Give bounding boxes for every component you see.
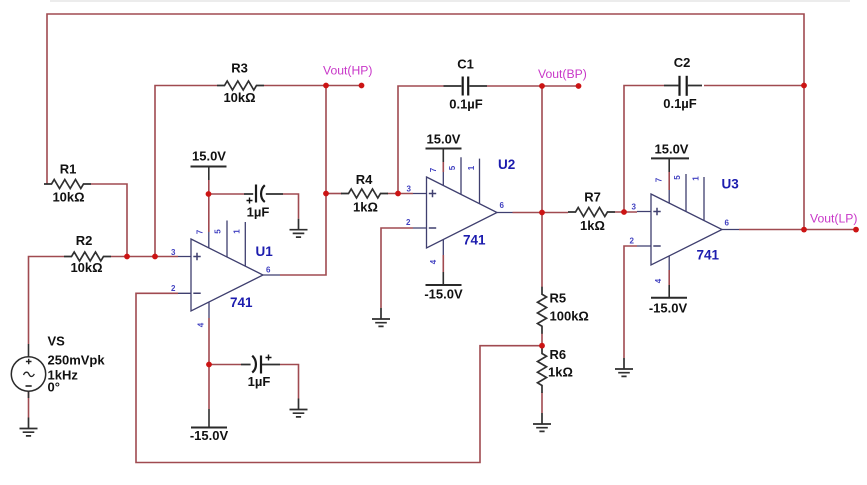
svg-text:15.0V: 15.0V	[655, 142, 689, 157]
svg-text:741: 741	[697, 248, 720, 263]
svg-text:3: 3	[171, 248, 176, 257]
svg-text:C1: C1	[457, 57, 474, 72]
wire: U2 pin2 to ground	[381, 228, 413, 308]
svg-text:1: 1	[233, 229, 242, 234]
capacitor C1	[444, 57, 488, 112]
svg-text:1kΩ: 1kΩ	[548, 365, 573, 380]
wire: HP node down to U1 output	[280, 86, 326, 276]
wire: LP feedback loop top/left/right	[47, 14, 804, 230]
svg-text:4: 4	[429, 259, 438, 264]
capacitor 1uF bottom bypass	[241, 355, 280, 390]
svg-text:U3: U3	[722, 177, 740, 192]
junction U1 VEE / cap	[206, 362, 212, 368]
top border artifact	[50, 0, 850, 2]
junction U2 out	[539, 210, 545, 216]
resistor R6	[538, 346, 573, 393]
svg-text:6: 6	[266, 266, 271, 275]
resistor R5	[538, 287, 589, 334]
capacitor 1uF top bypass	[244, 185, 283, 220]
svg-text:10kΩ: 10kΩ	[223, 90, 255, 105]
resistor R2	[64, 233, 111, 275]
wire: U3 output to Vout(LP)	[739, 229, 856, 231]
U2 VCC rail 15.0V	[426, 132, 462, 173]
node Vout(BP)	[538, 67, 587, 89]
U3 VCC rail 15.0V	[651, 142, 689, 191]
svg-text:100kΩ: 100kΩ	[550, 309, 589, 324]
ground U3 pin2	[615, 358, 633, 376]
wire: node A up to R3 left	[155, 86, 217, 257]
ground below VS	[20, 418, 38, 436]
op-amp U3	[630, 174, 740, 283]
svg-text:Vout(BP): Vout(BP)	[538, 67, 587, 81]
svg-text:R1: R1	[60, 162, 77, 177]
svg-text:R2: R2	[76, 233, 93, 248]
svg-text:U1: U1	[256, 244, 274, 259]
svg-text:0.1µF: 0.1µF	[663, 96, 697, 111]
ground top bypass cap	[290, 219, 308, 237]
svg-text:4: 4	[654, 278, 663, 283]
svg-text:5: 5	[448, 165, 457, 170]
U1 VCC rail 15.0V	[191, 148, 227, 232]
svg-text:1: 1	[692, 176, 701, 181]
capacitor C2	[663, 55, 702, 111]
svg-text:R7: R7	[584, 190, 601, 205]
svg-text:1µF: 1µF	[247, 205, 270, 220]
U2 VEE rail -15.0V	[424, 255, 463, 302]
ground bottom bypass cap	[290, 399, 308, 417]
resistor R4	[341, 172, 388, 215]
svg-text:Vout(LP): Vout(LP)	[810, 211, 857, 225]
svg-text:1kΩ: 1kΩ	[353, 200, 378, 215]
wire: R6 to ground	[541, 393, 543, 414]
wire: R4 to U2 pin3 and up to C1	[387, 86, 444, 194]
wire: C1 right to Vout(BP)	[487, 85, 579, 87]
junction R5/R6	[539, 343, 545, 349]
source VS	[11, 334, 105, 399]
svg-text:R3: R3	[231, 61, 248, 76]
junction R7/U3 pin3	[621, 209, 627, 215]
wire: bottom bypass cap right to ground	[280, 365, 299, 399]
svg-text:3: 3	[407, 185, 412, 194]
op-amp U2	[406, 157, 515, 264]
svg-text:-15.0V: -15.0V	[424, 287, 463, 302]
svg-text:15.0V: 15.0V	[427, 132, 461, 147]
junction C2/loop	[801, 83, 807, 89]
svg-text:1: 1	[467, 165, 476, 170]
svg-text:6: 6	[500, 201, 505, 210]
wire: VS bottom to ground	[28, 392, 30, 418]
svg-text:15.0V: 15.0V	[192, 148, 226, 163]
svg-text:Vout(HP): Vout(HP)	[323, 64, 372, 78]
svg-text:741: 741	[463, 233, 486, 248]
svg-text:R5: R5	[550, 291, 567, 306]
svg-text:250mVpk: 250mVpk	[48, 353, 106, 368]
wire: BP node down to R5	[541, 86, 543, 287]
resistor R7	[568, 190, 615, 234]
svg-text:VS: VS	[48, 334, 66, 349]
svg-text:-15.0V: -15.0V	[190, 428, 229, 443]
wire: U2 output to R7	[513, 212, 569, 214]
svg-text:10kΩ: 10kΩ	[52, 190, 84, 205]
svg-text:7: 7	[196, 229, 205, 234]
junction U1 VCC / cap	[206, 191, 212, 197]
wire: HP node to R4	[326, 193, 342, 195]
ground below R6	[533, 413, 551, 431]
wire: feedback R5/R6 node to U1 pin2	[136, 293, 542, 462]
wire: R1 out to node A	[91, 184, 127, 257]
junction HP/R4	[323, 191, 329, 197]
svg-text:5: 5	[673, 175, 682, 180]
wire: U3 pin3 node up to C2	[624, 86, 664, 213]
svg-text:0.1µF: 0.1µF	[449, 97, 483, 112]
ground U2 pin2	[372, 308, 390, 326]
svg-text:2: 2	[630, 237, 635, 246]
svg-text:C2: C2	[674, 55, 691, 70]
svg-text:7: 7	[655, 177, 664, 182]
wire: VS to R2	[29, 257, 65, 345]
op-amp U1	[171, 221, 280, 328]
svg-text:1kΩ: 1kΩ	[580, 218, 605, 233]
wire: R5 to R6 segment	[541, 334, 543, 347]
svg-text:2: 2	[406, 218, 411, 227]
svg-text:7: 7	[429, 167, 438, 172]
wire: C2 right to loop	[704, 85, 804, 87]
svg-text:R4: R4	[356, 172, 373, 187]
U3 VEE rail -15.0V	[649, 270, 688, 316]
svg-text:3: 3	[632, 203, 637, 212]
resistor R1	[44, 162, 91, 205]
wire: R2 to U1 pin3	[111, 256, 178, 258]
U1 VEE rail -15.0V	[190, 318, 229, 443]
wire: top bypass cap left	[209, 193, 245, 195]
svg-text:10kΩ: 10kΩ	[70, 260, 102, 275]
svg-text:U2: U2	[498, 157, 515, 172]
resistor R3	[217, 61, 264, 106]
node Vout(HP)	[323, 64, 372, 89]
svg-text:0°: 0°	[48, 380, 60, 395]
svg-text:741: 741	[230, 295, 253, 310]
wire: U3 pin2 to ground	[624, 246, 637, 358]
junction R4/U2 pin3	[395, 191, 401, 197]
svg-text:R6: R6	[550, 347, 567, 362]
wire: bottom bypass cap left	[209, 364, 241, 366]
wire: R3 right to Vout(HP)	[264, 85, 362, 87]
wire: top bypass cap right to ground	[283, 194, 299, 219]
svg-text:1µF: 1µF	[248, 374, 271, 389]
svg-text:6: 6	[725, 219, 730, 228]
svg-text:-15.0V: -15.0V	[649, 301, 688, 316]
node Vout(LP)	[801, 211, 859, 232]
svg-text:2: 2	[171, 284, 176, 293]
junction node A dots	[124, 254, 130, 260]
svg-text:5: 5	[214, 229, 223, 234]
svg-text:4: 4	[197, 322, 206, 327]
wire: R7 to U3 pin3	[615, 211, 637, 213]
